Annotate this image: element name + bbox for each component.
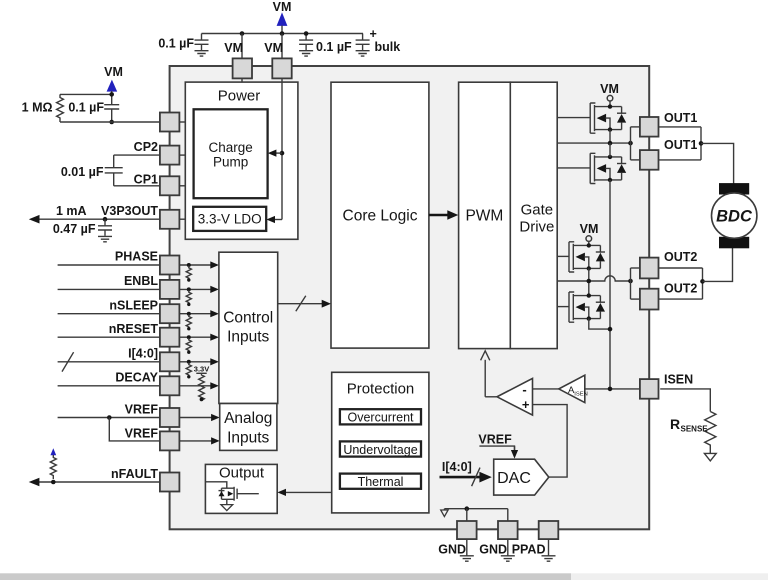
transistor high-side OUT1 [590,103,626,133]
svg-text:VM: VM [600,82,619,96]
svg-text:1 mA: 1 mA [56,204,87,218]
svg-text:VREF: VREF [478,433,512,447]
svg-text:0.1 µF: 0.1 µF [68,100,104,114]
wire node OUT1 [557,142,631,144]
wire VREF1 [58,417,160,419]
ground earth PPAD [542,556,556,561]
pin ISEN [640,379,659,399]
resistor Rsense [705,412,716,454]
wire GND2 stub [507,539,509,556]
box Protection [332,372,429,513]
wire DECAY [58,385,160,387]
chip body [170,66,650,529]
wire VM pin1 stub [241,34,243,59]
svg-text:VM: VM [273,0,292,14]
svg-text:Undervoltage: Undervoltage [343,443,417,457]
resistor nFAULT pullup [50,455,56,479]
wire gate LS2 [557,306,569,308]
arrow core logic to PWM [429,214,449,217]
wire control bus to core logic [278,303,323,305]
svg-text:+: + [370,27,377,41]
ground open triangle Rsense [704,453,716,461]
footer scrollbar dark segment [0,573,571,580]
arrowhead into charge pump [268,150,277,157]
wire output FET gate lead [237,493,259,495]
svg-text:CP2: CP2 [134,140,158,154]
arrowhead PHASE [210,261,219,268]
wire OUT2b external [658,298,702,300]
wire OUT1b stub [631,159,641,161]
wire VM pin1 stub into power [241,79,243,83]
svg-text:I[4:0]: I[4:0] [128,346,158,360]
slash I40 DAC bus [472,468,480,487]
wire GND1 stub [466,539,468,556]
arrowhead ENBL [210,286,219,293]
svg-text:Inputs: Inputs [227,328,269,345]
junction dot ENBL pulldown [187,287,191,291]
svg-text:1 MΩ: 1 MΩ [22,101,53,115]
wire LS2 source to ISEN [589,318,610,329]
DAC block [494,459,549,495]
arrowhead control bus [322,300,331,308]
capacitor 0.01uF [113,155,115,167]
wire gate LS1 [557,167,590,169]
wire OUT2 pin link vertical [630,268,632,299]
wire HS2 source to node [588,268,590,295]
svg-text:+: + [522,397,530,412]
arrowhead core to PWM [447,210,458,219]
op-amp Aisen current sense amp [559,375,585,402]
svg-text:Drive: Drive [519,219,554,236]
wire OUT1b external [658,159,701,161]
ground internal net symbol [443,509,445,510]
junction dot VCP top [109,92,114,97]
wire OUT2 join vertical [702,268,704,299]
junction dot nRESET pulldown [187,335,191,339]
svg-text:0.1 µF: 0.1 µF [316,40,352,54]
resistor nSLEEP pulldown [186,315,191,331]
wire internal ground net [444,508,507,510]
wire VM pin2 stub [281,34,283,59]
box Control Inputs [219,252,278,403]
arrowhead nSLEEP [210,310,219,317]
wire VCP pin [60,121,160,123]
wire gnd1 drop [466,509,468,521]
junction dot VREF [107,415,112,420]
wire VM left stem [111,91,113,94]
box Undervoltage [340,441,421,456]
wire VREF down link [109,418,160,441]
transistor low-side OUT1 [590,153,626,183]
wire plus input from DAC [533,405,568,478]
pin V3P3OUT [160,210,180,229]
wire ENBL [58,288,160,290]
svg-text:VREF: VREF [125,402,159,416]
svg-text:0.47 µF: 0.47 µF [53,222,96,236]
svg-text:CP1: CP1 [134,172,158,186]
pin DECAY [160,376,180,395]
wire ENBL to control inputs [179,288,211,290]
svg-text:VM: VM [224,41,243,55]
box 3.3-V LDO [193,207,266,231]
box Analog Inputs [220,404,277,451]
junction dot node OUT1 right [628,141,633,146]
svg-text:PWM: PWM [465,208,503,225]
resistor DECAY divider [199,373,205,400]
svg-text:OUT2: OUT2 [664,250,697,264]
wire VCP to charge pump [179,121,193,123]
wire nSLEEP to control inputs [179,313,211,315]
resistor PHASE pulldown [186,266,191,282]
transistor Q_nFAULT output FET [222,488,235,499]
svg-text:BDC: BDC [716,208,753,226]
svg-text:DAC: DAC [497,470,531,487]
box Overcurrent [340,409,421,424]
junction dot LS2 source join [608,327,613,332]
junction dot OUT1 join [699,141,704,146]
wire PHASE to control inputs [179,264,211,266]
svg-text:Inputs: Inputs [227,430,269,447]
junction dot VM arrow [280,31,285,36]
svg-text:nFAULT: nFAULT [111,467,158,481]
arrowhead I40 into DAC [479,472,491,483]
box Power [185,82,298,239]
wire minus input from Aisen [533,388,560,390]
pin GND2 [498,521,518,539]
wire CP1 left [114,185,160,187]
svg-text:OUT2: OUT2 [664,282,697,296]
svg-text:Core Logic: Core Logic [343,208,418,225]
bus I40 into DAC [440,476,481,479]
junction dot cap2 [304,31,309,36]
wire gate HS2 [557,255,569,257]
capacitor 0.47uF [98,219,112,242]
wire OUT1a external [658,126,701,128]
node VM circle bridge2 [586,236,592,242]
wire top VM bus [202,33,364,35]
svg-text:Pump: Pump [213,155,248,170]
wire OUT1 join vertical [700,127,702,160]
svg-text:R: R [670,416,680,432]
svg-text:Control: Control [223,309,273,326]
pin VREF2 [160,431,180,450]
pin OUT1b [640,150,659,170]
box Gate Drive [510,82,557,348]
svg-text:nSLEEP: nSLEEP [109,298,158,312]
slash I40 bus [62,352,74,371]
svg-text:PPAD: PPAD [512,543,546,557]
svg-text:SENSE: SENSE [681,424,709,433]
svg-text:V3P3OUT: V3P3OUT [101,204,158,218]
box Output [205,464,277,513]
wire I40 to control inputs [179,361,211,363]
wire HS1 source to node [609,130,611,144]
svg-text:OUT1: OUT1 [664,138,697,152]
junction dot gnd net [465,506,470,511]
wire nFAULT [37,481,160,483]
junction dot nSLEEP pulldown [187,312,191,316]
resistor 1 Mohm [57,94,64,122]
ground earth GND1 [460,556,474,561]
wire nRESET [58,336,160,338]
wire PPAD stub [548,539,550,556]
junction dot I40 pulldown [187,360,191,364]
svg-text:3.3-V LDO: 3.3-V LDO [198,212,262,227]
pin VM1 top [233,58,252,78]
wire comparator output to PWM [484,360,486,397]
resistor nRESET pulldown [186,338,191,354]
pin CP2 [160,146,180,165]
svg-text:0.1 µF: 0.1 µF [158,37,194,51]
arrowhead nFAULT left [29,478,40,487]
pin nSLEEP [160,304,180,323]
wire PHASE [58,264,160,266]
pin GND1 [457,521,477,539]
wire output FET source down [226,499,228,504]
svg-text:-: - [522,382,526,397]
wire ISEN external [660,389,710,412]
op-amp comparator [497,378,533,415]
motor brush bottom [719,237,749,249]
arrowhead nRESET [210,334,219,341]
svg-text:GND: GND [479,543,507,557]
box Thermal [340,474,421,489]
wire gate HS1 [557,117,590,119]
svg-text:bulk: bulk [375,40,401,54]
pin VM2 top [272,58,291,78]
svg-text:Analog: Analog [224,410,272,427]
junction dot V3P3OUT [103,217,108,222]
wire VM rail to LDO [274,219,282,221]
pin nFAULT [160,473,180,492]
arrowhead DECAY [210,382,219,389]
capacitor bulk polarized [356,34,370,57]
node VM circle bridge1 [607,95,613,101]
arrowhead into LDO [266,216,275,223]
arrowhead into output box [277,489,286,496]
wire comparator tip lead [485,396,497,398]
junction dot VM pin1 [240,31,245,36]
wire VREF2 to analog inputs [179,440,212,442]
wire DECAY to control inputs [179,385,211,387]
wire protection to output [285,491,332,493]
wire nSLEEP [58,313,160,315]
capacitor 0.1uF left [111,94,113,104]
junction dot OUT2 join [700,279,705,284]
wire OUT2a stub [631,267,641,269]
pin nRESET [160,328,180,347]
pin VCP [160,113,180,132]
pin VREF1 [160,408,180,427]
junction dot node OUT2 right [628,279,633,284]
motor BDC body [712,193,757,238]
svg-text:I[4:0]: I[4:0] [442,460,472,474]
wire VM rail to charge pump [275,152,282,154]
wire VM circle stub bridge2 [588,241,590,245]
junction dot VM rail charge pump [280,151,285,156]
wire nFAULT internal to FET drain [205,482,226,488]
svg-text:DECAY: DECAY [115,371,158,385]
wire LS1 drain up [609,143,611,157]
arrowhead VREF1 [211,414,220,421]
wire node OUT2 with hop [557,276,631,281]
wire CP2 to charge pump [179,154,193,156]
wire ISEN to Aisen [585,388,640,390]
wire VM arrow stem [281,26,283,34]
svg-text:ISEN: ISEN [574,391,588,397]
svg-text:OUT1: OUT1 [664,111,697,125]
pin PHASE [160,256,180,275]
wire V3P3OUT to LDO [179,218,193,220]
capacitor 0.1uF top-right [299,34,313,57]
ground earth GND2 [501,556,515,561]
pin OUT1a [640,117,659,137]
transistor low-side OUT2 [569,292,605,322]
svg-text:VREF: VREF [125,426,159,440]
arrowhead I40 [210,358,219,365]
motor brush top [719,183,749,194]
junction dot ISEN line [608,387,613,392]
junction dot node OUT2 left [587,279,592,284]
wire OUT2b stub [631,298,641,300]
wire VCP top rail [60,93,112,95]
svg-text:3.3V: 3.3V [194,365,209,374]
svg-text:Charge: Charge [208,140,252,155]
svg-text:VM: VM [264,41,283,55]
svg-text:0.01 µF: 0.01 µF [61,165,104,179]
svg-text:nRESET: nRESET [109,322,159,336]
transistor high-side OUT2 [569,242,605,272]
wire VREF1 to analog inputs [179,417,212,419]
svg-text:Power: Power [218,88,261,105]
svg-text:VM: VM [580,222,599,236]
junction dot node OUT1 [608,141,613,146]
wire VM circle stub bridge1 [609,101,611,107]
wire VM pin2 internal rail [281,79,283,220]
junction dot VCP bottom [109,120,114,125]
rail bar 3.3V [196,372,206,374]
pin OUT2a [640,258,659,279]
resistor I40 pulldown [186,363,191,379]
node pull-up arrow nFAULT [50,448,56,455]
arrowhead open into PWM [481,351,490,361]
ground open triangle output FET [221,505,233,511]
wire OUT2 to motor [703,248,733,281]
pin I40 [160,352,180,371]
svg-text:Overcurrent: Overcurrent [348,411,415,425]
svg-text:Thermal: Thermal [358,475,404,489]
svg-text:PHASE: PHASE [115,250,158,264]
svg-text:VM: VM [104,65,123,79]
pin PPAD [539,521,559,539]
pin OUT2b [640,289,659,310]
node VM top supply arrow [277,12,288,26]
resistor ENBL pulldown [186,290,191,306]
junction dot DECAY divider bottom [200,398,204,402]
capacitor 0.1uF top-left [195,34,209,57]
pin CP1 [160,176,180,195]
slash control bus [296,296,306,311]
wire I40 [58,361,160,363]
arrowhead VREF2 [211,437,220,444]
pin ENBL [160,280,180,299]
wire nRESET to control inputs [179,336,211,338]
junction dot PHASE pulldown [187,263,191,267]
box Charge Pump [194,109,268,198]
footer scrollbar light segment [571,573,768,580]
wire ISEN vertical [609,180,611,389]
wire CP2 left [114,154,160,156]
arrowhead VREF into DAC [511,450,518,459]
wire V3P3OUT out [37,218,160,220]
wire OUT1 to motor [701,143,734,183]
svg-text:ISEN: ISEN [664,373,693,387]
wire OUT2a external [658,267,702,269]
box Core Logic [331,82,429,348]
wire gnd2 drop [507,509,509,521]
svg-text:GND: GND [438,543,466,557]
box PWM [459,82,511,348]
wire OUT1 pin link vertical [630,127,632,160]
wire VREF into DAC [479,446,514,450]
node VM left supply arrow [107,80,118,92]
svg-text:Output: Output [219,465,265,482]
wire OUT1a stub [631,126,641,128]
arrowhead V3P3OUT left [29,215,40,224]
svg-text:Gate: Gate [521,202,554,219]
wire CP1 to charge pump [179,185,193,187]
junction dot nFAULT [51,480,56,485]
svg-text:Protection: Protection [347,380,415,397]
svg-text:ENBL: ENBL [124,274,158,288]
